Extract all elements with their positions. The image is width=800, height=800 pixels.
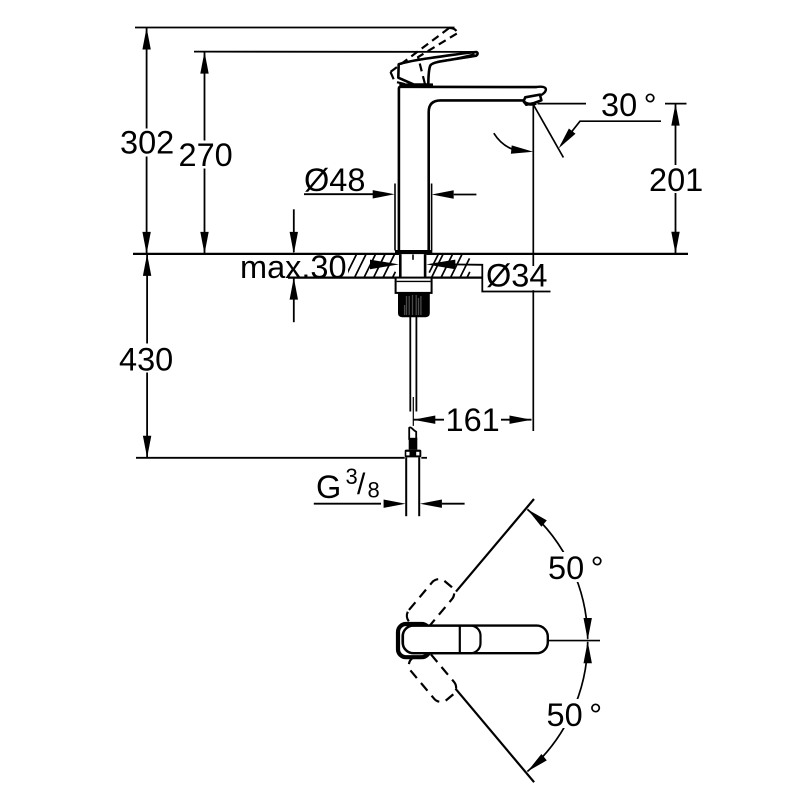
upper 50° arc bbox=[527, 509, 587, 639]
Ø48 extension lines bbox=[394, 184, 396, 251]
center axis line bbox=[548, 640, 600, 642]
white text backgrounds bbox=[485, 266, 547, 290]
vertical water stream reference line bbox=[532, 105, 534, 432]
svg-text:302: 302 bbox=[120, 125, 174, 161]
hose end piece above connector bbox=[409, 427, 416, 439]
lever handle solid (side view) bbox=[398, 52, 477, 85]
dimension line 302 horizontal top bbox=[135, 27, 455, 29]
flexible supply hose bbox=[409, 317, 411, 412]
dimension Ø48 leader and arrows bbox=[304, 193, 373, 195]
svg-text:430: 430 bbox=[119, 342, 173, 378]
hatching right band of countertop section bbox=[429, 254, 470, 278]
aerator at spout outlet bbox=[524, 95, 542, 105]
dimension 201 vertical bbox=[665, 103, 687, 105]
svg-text:Ø34: Ø34 bbox=[486, 258, 547, 294]
white background of max.30 label bbox=[238, 255, 348, 280]
svg-text:3: 3 bbox=[346, 464, 358, 489]
svg-text:8: 8 bbox=[368, 478, 380, 503]
escutcheon under lever bbox=[399, 83, 433, 87]
grip divider line bbox=[459, 626, 461, 654]
countertop underside line bbox=[288, 277, 483, 279]
dimension line 270 horizontal bbox=[194, 51, 476, 53]
dimension 161 line bbox=[413, 419, 531, 421]
svg-text:201: 201 bbox=[649, 162, 703, 198]
30 degree reference: aerator to label line bbox=[538, 103, 587, 105]
upper rotated knob (dashed) bbox=[403, 575, 458, 633]
lower 50° boundary line bbox=[456, 689, 535, 783]
knurled mounting nut bbox=[398, 293, 430, 317]
spout tip cap bbox=[536, 87, 546, 96]
lever handle raised position (dashed) bbox=[391, 28, 458, 85]
lower 50° arc bbox=[527, 642, 587, 772]
supply pipe divider stub in shank bbox=[412, 255, 414, 260]
svg-text:50 °: 50 ° bbox=[547, 697, 603, 733]
handle grip cap top view bbox=[403, 626, 481, 654]
svg-text:max.30: max.30 bbox=[240, 249, 347, 285]
svg-text:G: G bbox=[316, 469, 341, 505]
svg-text:161: 161 bbox=[446, 402, 500, 438]
faucet inner contour (spout underside and body right edge) bbox=[429, 100, 524, 250]
dimension line 270 vertical bbox=[204, 52, 206, 254]
connection tube below bbox=[405, 457, 407, 516]
lower rotated knob (dashed) bbox=[405, 647, 460, 705]
svg-text:30 °: 30 ° bbox=[601, 87, 657, 123]
svg-text:50 °: 50 ° bbox=[548, 550, 604, 586]
dimension line 302 vertical bbox=[146, 28, 148, 254]
threaded shank through countertop bbox=[399, 254, 426, 278]
lever blade inner line bbox=[438, 54, 475, 62]
faucet body left edge bbox=[399, 87, 537, 251]
leader from 30° label bbox=[561, 121, 661, 145]
countertop top surface line bbox=[133, 253, 688, 255]
svg-text:/: / bbox=[357, 468, 366, 501]
dimension line 430 vertical bbox=[146, 254, 148, 458]
svg-text:Ø48: Ø48 bbox=[304, 162, 365, 198]
base plate on countertop bbox=[395, 250, 432, 254]
upper 50° boundary line bbox=[456, 499, 534, 592]
30 degree slanted stream line bbox=[533, 105, 563, 158]
dimension G3/8 line bbox=[314, 503, 381, 505]
connector nut G3/8 bbox=[405, 450, 422, 458]
handle knob top view (thick outline) bbox=[398, 624, 430, 657]
hatching left band of countertop section bbox=[345, 254, 395, 278]
svg-text:270: 270 bbox=[179, 137, 233, 173]
Ø34 clamp arrows at shank bbox=[370, 260, 399, 270]
dimension max.30 vertical line with outside arrows bbox=[293, 209, 295, 252]
swivel arc arrow at spout bbox=[494, 133, 522, 151]
430 bottom reference line bbox=[136, 457, 405, 459]
mounting flange under counter bbox=[396, 278, 432, 293]
Ø34 leader frame bbox=[450, 264, 551, 291]
handle lever arm top view bbox=[403, 626, 548, 654]
